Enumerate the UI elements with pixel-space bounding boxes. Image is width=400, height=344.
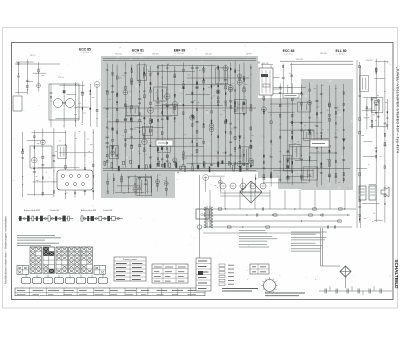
- resistor R48: [150, 87, 151, 89]
- wire: [320, 84, 322, 185]
- wire: [107, 173, 109, 192]
- resistor R162: [316, 113, 318, 115]
- resistor R138: [279, 114, 281, 117]
- IF transformer T9: [137, 65, 146, 81]
- wire: [157, 174, 159, 192]
- coil L96: [68, 216, 70, 221]
- wire: [149, 145, 203, 147]
- wire: [74, 132, 76, 198]
- capacitor C55: [191, 101, 194, 104]
- connector pin 4: [86, 175, 89, 178]
- coil L58: [250, 109, 252, 111]
- resistor R35: [139, 83, 140, 86]
- svg-text:Antenne Serie UKW: Antenne Serie UKW: [24, 209, 40, 212]
- resistor R145: [292, 114, 294, 117]
- coil L82: [359, 173, 361, 176]
- wire: [75, 82, 77, 127]
- node: [211, 98, 212, 99]
- coil L94: [55, 216, 57, 220]
- resistor R92: [225, 104, 226, 106]
- coil L57: [239, 78, 241, 81]
- resistor R189: [366, 107, 368, 109]
- capacitor C45: [166, 67, 168, 70]
- resistor R120: [107, 191, 108, 193]
- coil L17: [116, 119, 118, 122]
- capacitor C106: [328, 175, 330, 178]
- resistor R31: [131, 81, 132, 83]
- capacitor C100: [320, 140, 323, 143]
- wire: [38, 167, 80, 169]
- resistor R193: [387, 111, 388, 113]
- resistor R99: [230, 163, 231, 165]
- capacitor C91: [286, 151, 289, 154]
- resistor R154: [301, 103, 302, 106]
- coil L67: [263, 175, 265, 178]
- resistor R94: [225, 131, 226, 133]
- tuning indicator section: [260, 63, 293, 96]
- capacitor C111: [342, 138, 345, 141]
- resistor R185: [376, 155, 377, 158]
- tube V34: [203, 175, 209, 181]
- tube V26: [156, 180, 160, 184]
- resistor R97: [230, 106, 231, 109]
- node: [84, 155, 85, 156]
- resistor R188: [384, 133, 385, 136]
- component row along chassis: [104, 160, 253, 172]
- coil L7: [42, 156, 44, 158]
- resistor R25: [117, 131, 118, 134]
- resistor R177: [343, 173, 344, 176]
- resistor R14: [74, 183, 76, 185]
- node: [139, 153, 140, 154]
- capacitor C70: [229, 141, 232, 144]
- capacitor C2: [26, 79, 28, 82]
- node: [151, 176, 152, 177]
- node: [287, 162, 288, 163]
- resistor R115: [250, 165, 252, 168]
- tube V8: [148, 107, 154, 113]
- coil L101: [107, 216, 110, 221]
- wire: [309, 152, 335, 154]
- wire: [139, 62, 141, 169]
- capacitor C127: [334, 225, 335, 228]
- capacitor C26: [111, 145, 114, 148]
- node: [144, 123, 145, 124]
- resistor R150: [301, 175, 303, 177]
- resistor R113: [243, 113, 244, 115]
- coil L60: [250, 145, 252, 148]
- tube V16: [216, 90, 220, 94]
- coil L35: [149, 129, 151, 132]
- wire: [309, 83, 311, 183]
- resistor R90: [218, 152, 219, 154]
- lamp: [197, 225, 201, 229]
- coil L32: [144, 73, 146, 76]
- tube V33: [374, 100, 378, 104]
- resistor R28: [125, 104, 126, 107]
- wire: [59, 152, 93, 154]
- coil L41: [174, 107, 176, 110]
- terminal box: [13, 96, 22, 111]
- node: [317, 100, 318, 101]
- node: [263, 100, 264, 101]
- resistor R41: [144, 72, 145, 75]
- IF transformer T8: [142, 126, 152, 135]
- selenium rectifier B2: [340, 266, 351, 277]
- wire: [26, 60, 28, 95]
- node: [192, 102, 193, 103]
- resistor R190: [371, 120, 373, 122]
- connector pin 3: [78, 175, 81, 178]
- resistor R137: [280, 136, 281, 138]
- resistor R132: [263, 110, 264, 112]
- capacitor C79: [144, 183, 147, 186]
- coil L78: [328, 103, 330, 106]
- wire: [63, 83, 65, 127]
- pushbutton key 7: [88, 278, 97, 284]
- tube V21: [237, 161, 242, 166]
- resistor R129: [291, 75, 293, 77]
- node: [366, 110, 367, 111]
- capacitor C99: [315, 100, 318, 103]
- resistor R186: [384, 142, 386, 145]
- capacitor C19: [106, 68, 108, 71]
- coil L56: [234, 110, 236, 112]
- capacitor C32: [130, 128, 133, 131]
- coil L59: [250, 146, 252, 149]
- wire: [59, 84, 85, 86]
- switch bank 4: [69, 247, 81, 273]
- resistor R156: [309, 130, 311, 133]
- tube V5: [111, 151, 115, 155]
- wire: [107, 121, 142, 123]
- callout label box 2: [310, 140, 329, 147]
- resistor R4: [63, 90, 65, 93]
- tube V2: [94, 82, 100, 88]
- coil L11: [74, 185, 76, 188]
- node: [75, 84, 76, 85]
- node: [272, 214, 273, 215]
- resistor R196: [339, 208, 342, 210]
- coil L48: [196, 143, 198, 146]
- node: [292, 125, 293, 126]
- coil L37: [161, 164, 163, 166]
- IF filter chain: [80, 218, 123, 220]
- connector pin 2: [70, 175, 73, 178]
- DIN connector: [57, 170, 93, 190]
- resistor R34: [131, 68, 132, 70]
- svg-text:281 346: 281 346: [320, 53, 327, 55]
- resistor R96: [230, 132, 231, 135]
- capacitor C29: [124, 118, 127, 121]
- wire: [89, 84, 91, 127]
- resistor R143: [292, 161, 293, 164]
- resistor R29: [125, 144, 126, 147]
- wire: [371, 98, 373, 129]
- resistor R43: [150, 145, 151, 147]
- tube heater V60: [220, 183, 226, 189]
- callout label box: [156, 140, 173, 146]
- resistor R77: [203, 78, 204, 80]
- resistor R38: [139, 80, 140, 83]
- node: [246, 214, 247, 215]
- capacitor C129: [263, 207, 264, 210]
- wire: [289, 146, 320, 148]
- resistor R197: [228, 226, 231, 228]
- wire: [270, 65, 272, 96]
- capacitor C64: [202, 67, 205, 70]
- node: [291, 75, 292, 76]
- wire: [209, 175, 225, 177]
- capacitor C116: [375, 146, 377, 149]
- wire: [268, 93, 303, 95]
- resistor R180: [359, 214, 360, 216]
- node: [280, 168, 281, 169]
- resistor R106: [234, 69, 235, 72]
- shaded chassis region: [101, 56, 258, 172]
- svg-text:ECC 83: ECC 83: [283, 49, 295, 53]
- node: [151, 177, 152, 178]
- resistor R166: [329, 114, 331, 116]
- capacitor C123: [377, 115, 380, 118]
- resistor R111: [243, 163, 245, 166]
- node: [38, 72, 39, 73]
- node: [378, 116, 379, 117]
- footnote text DE: [291, 231, 327, 233]
- node: [75, 121, 76, 122]
- resistor R148: [292, 162, 293, 165]
- resistor R136: [270, 173, 271, 175]
- coil L51: [217, 97, 219, 99]
- resistor R104: [235, 89, 236, 92]
- wire: [113, 173, 115, 194]
- node: [53, 171, 54, 172]
- capacitor C9: [33, 170, 36, 173]
- wire: [33, 181, 67, 183]
- svg-text:SCHALTBILD: SCHALTBILD: [394, 259, 399, 289]
- IF transformer T2: [58, 145, 67, 159]
- resistor R170: [335, 112, 337, 115]
- coil L90: [32, 216, 34, 221]
- resistor R75: [203, 70, 204, 72]
- capacitor C46: [166, 160, 169, 163]
- coil L18: [116, 94, 118, 96]
- wire: [291, 63, 293, 95]
- coil L33: [150, 102, 152, 105]
- svg-text:u. Zf-Verst.: u. Zf-Verst.: [175, 52, 184, 55]
- pushbutton key 3: [44, 278, 53, 284]
- wire: [112, 64, 114, 170]
- capacitor C6: [81, 91, 84, 94]
- resistor R65: [183, 69, 185, 71]
- wire: [186, 94, 210, 96]
- resistor R59: [174, 117, 175, 119]
- resistor R200: [338, 220, 341, 222]
- drawing border frame: [12, 43, 394, 300]
- node: [280, 151, 281, 152]
- capacitor C72: [238, 147, 241, 150]
- node: [301, 170, 302, 171]
- resistor R181: [359, 200, 360, 202]
- tube V17: [223, 66, 228, 71]
- coil L34: [150, 121, 152, 124]
- capacitor C94: [309, 174, 311, 177]
- resistor R133: [263, 111, 264, 114]
- resistor R183: [376, 71, 377, 74]
- wire: [76, 106, 88, 108]
- resistor R108: [239, 145, 240, 148]
- resistor R191: [371, 124, 372, 127]
- wire: [125, 115, 173, 117]
- coil L19: [116, 76, 118, 79]
- wire: [261, 63, 263, 96]
- tube V30: [262, 107, 267, 112]
- capacitor C18: [106, 126, 108, 129]
- capacitor C82: [263, 167, 266, 170]
- IF transformer T11: [240, 147, 249, 164]
- capacitor C134: [358, 289, 359, 294]
- wire: [92, 129, 94, 200]
- wire: [182, 62, 184, 165]
- IF transformer T19: [360, 76, 369, 92]
- IF amplifier section: [106, 61, 254, 170]
- coil L92: [40, 216, 43, 222]
- capacitor C77: [128, 176, 130, 179]
- capacitor C10: [41, 163, 44, 166]
- wire: [64, 130, 66, 198]
- node: [183, 81, 184, 82]
- wire: [263, 182, 307, 184]
- resistor R71: [197, 82, 198, 85]
- node: [51, 217, 53, 219]
- resistor R128: [283, 65, 284, 67]
- coil L46: [196, 149, 198, 152]
- wire: [17, 62, 19, 95]
- wire: [282, 64, 284, 94]
- resistor R160: [316, 146, 317, 149]
- capacitor C37: [143, 90, 145, 93]
- caption text: [222, 289, 305, 296]
- capacitor C54: [182, 87, 185, 90]
- capacitor C67: [229, 122, 232, 125]
- resistor R165: [329, 104, 331, 107]
- node: [239, 159, 240, 160]
- capacitor C20: [106, 108, 109, 111]
- node: [23, 217, 25, 219]
- coil L62: [107, 181, 109, 184]
- capacitor C65: [210, 163, 213, 166]
- resistor R3: [51, 96, 52, 98]
- capacitor C40: [156, 101, 159, 104]
- capacitor C24: [112, 73, 114, 76]
- svg-text:EBF 89: EBF 89: [174, 49, 186, 53]
- wire: [302, 137, 329, 139]
- resistor R126: [157, 183, 158, 186]
- wire: [255, 174, 257, 192]
- capacitor C61: [196, 67, 199, 70]
- resistor R124: [139, 177, 140, 179]
- resistor R67: [192, 124, 193, 127]
- svg-text:281 96: 281 96: [246, 54, 252, 56]
- CHaN box: [196, 209, 209, 219]
- capacitor C85: [270, 90, 272, 93]
- resistor R12: [42, 177, 43, 179]
- svg-text:u. Zf-Verst.: u. Zf-Verst.: [337, 53, 346, 56]
- resistor R78: [211, 120, 212, 123]
- resistor R155: [301, 93, 302, 95]
- pushbutton key 1: [22, 278, 31, 284]
- capacitor C135: [369, 289, 370, 294]
- coil L52: [225, 121, 227, 123]
- wire: [365, 108, 371, 110]
- connector pin 5: [66, 183, 69, 186]
- node: [117, 104, 118, 105]
- wire: [22, 132, 24, 197]
- tube heater V64: [260, 183, 266, 189]
- coil L75: [328, 174, 330, 177]
- resistor R135: [271, 140, 272, 143]
- resistor R74: [203, 124, 205, 126]
- capacitor C136: [380, 289, 381, 294]
- node: [59, 217, 61, 219]
- resistor R147: [291, 121, 293, 124]
- node: [112, 163, 113, 164]
- coil L15: [112, 128, 114, 130]
- wire: [150, 176, 152, 193]
- capacitor C103: [320, 172, 323, 175]
- svg-text:Antenne Serie MW: Antenne Serie MW: [81, 209, 96, 212]
- coil L88: [19, 216, 22, 221]
- coil L86: [384, 166, 386, 169]
- capacitor C62: [196, 121, 199, 124]
- node: [294, 208, 295, 209]
- capacitor C125: [241, 188, 244, 191]
- pushbutton key 2: [33, 278, 42, 284]
- tube V10: [165, 94, 170, 99]
- resistor R161: [316, 113, 318, 115]
- coil L50: [203, 141, 205, 143]
- node: [366, 114, 367, 115]
- resistor R37: [139, 130, 140, 133]
- IF transformer T6: [234, 99, 246, 113]
- node: [65, 193, 66, 194]
- resistor R187: [384, 203, 385, 205]
- resistor R66: [183, 87, 185, 89]
- wire: [27, 140, 45, 142]
- node: [211, 134, 212, 135]
- resistor R151: [301, 177, 302, 180]
- node: [93, 183, 94, 184]
- node: [51, 101, 52, 102]
- capacitor C75: [243, 78, 245, 81]
- resistor R33: [131, 82, 132, 85]
- node: [225, 131, 226, 132]
- coil L2: [63, 91, 65, 93]
- coil L39: [166, 141, 168, 144]
- wire: [219, 177, 221, 192]
- capacitor C110: [334, 136, 337, 139]
- capacitor C13: [74, 179, 76, 182]
- resistor R82: [211, 85, 212, 88]
- resistor R84: [217, 101, 219, 103]
- capacitor C27: [111, 85, 113, 88]
- resistor R157: [309, 159, 310, 161]
- coil L4: [96, 109, 98, 111]
- svg-text:Drehko LW: Drehko LW: [50, 210, 59, 212]
- wire: [384, 60, 386, 222]
- bridge rectifier B1: [240, 181, 262, 203]
- resistor R121: [113, 178, 114, 180]
